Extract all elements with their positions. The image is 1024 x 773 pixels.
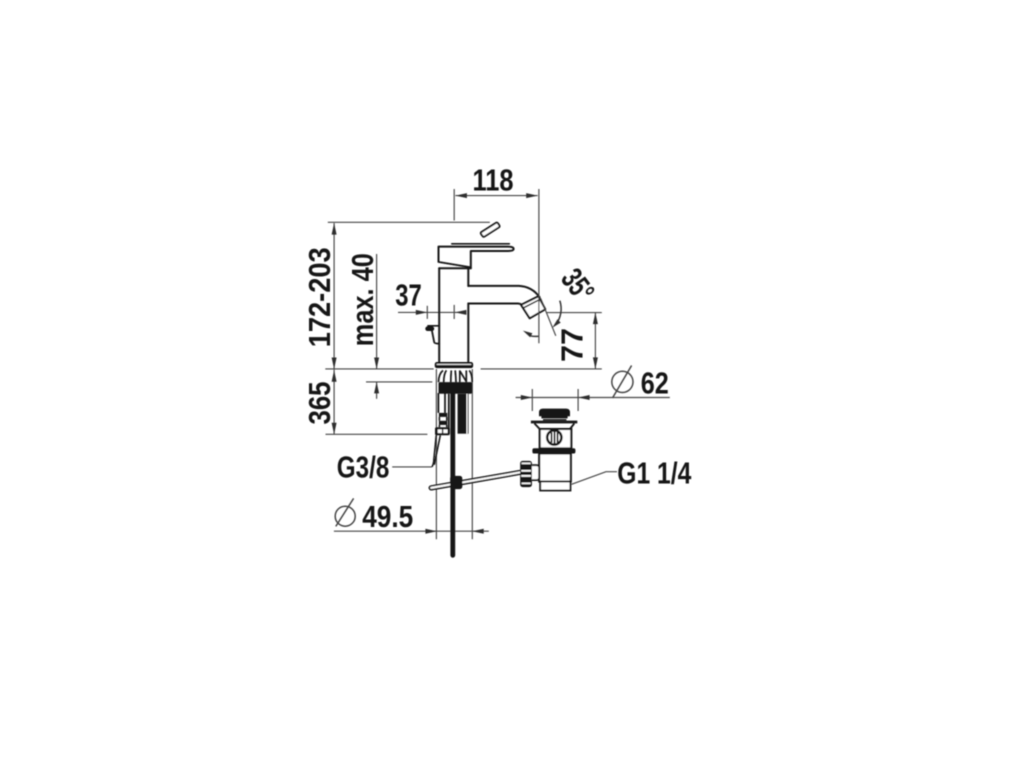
lever handle: [439, 247, 514, 269]
body right edge upper: [467, 268, 469, 286]
dim max40 line lower overshoot: [376, 382, 378, 399]
top reference line (lever max height): [328, 221, 490, 223]
hose nut: [435, 427, 450, 435]
deck line left segment: [325, 368, 433, 370]
arrows dia62 (outside): [521, 395, 533, 400]
threaded shank: [458, 394, 469, 434]
hose tail to G3/8: [432, 435, 436, 467]
dim 37 line: [398, 311, 466, 313]
left hose tube: [437, 393, 439, 413]
dim 172-203 line: [333, 223, 335, 369]
lever tip indicator (raised position): [481, 223, 500, 237]
arrows 172-203: [332, 223, 337, 235]
stream direction line: [541, 298, 556, 336]
spout bottom edge: [468, 304, 523, 307]
dia symbol 62: [612, 371, 633, 392]
tick 37 left: [426, 306, 428, 319]
lower body: [539, 454, 571, 482]
leader G3/8: [392, 466, 432, 468]
tick dia62 right: [577, 389, 579, 411]
arrows 77 (inside): [593, 313, 598, 325]
nut-body connector: [532, 465, 539, 480]
thin ring under cap: [543, 419, 566, 421]
upper body: [540, 429, 572, 448]
plug cap: [540, 410, 569, 416]
svg-text:max. 40: max. 40: [345, 253, 380, 346]
svg-text:77: 77: [555, 328, 590, 362]
dia symbol 49.5: [335, 506, 355, 526]
tailpipe: [540, 482, 570, 491]
arrows 37 (outside): [416, 310, 428, 315]
body left edge: [438, 268, 440, 363]
arrows max40 (outside, pointing in): [374, 358, 379, 370]
ext line right of 118 (over aerator): [538, 189, 540, 343]
pop-up vertical rod: [450, 394, 455, 556]
sealing washer band: [532, 448, 575, 453]
max depth line (deck underside): [366, 381, 432, 383]
tick 37 right (centerline): [453, 305, 455, 319]
ext line bottom of 365: [326, 433, 428, 435]
hose top curves: [439, 370, 473, 382]
side nut: [520, 461, 532, 487]
base plate: [436, 363, 473, 367]
svg-text:37: 37: [395, 278, 422, 313]
ext line left (faucet centerline top): [453, 189, 455, 221]
svg-text:62: 62: [641, 365, 669, 400]
swivel arc left: [530, 335, 538, 338]
hose connector band 1: [439, 413, 447, 417]
flange disk: [531, 421, 577, 424]
ext line dia49.5 right: [471, 369, 473, 539]
body right edge lower: [467, 304, 469, 363]
svg-text:118: 118: [473, 162, 514, 197]
dimension arrowheads: [332, 193, 598, 534]
dim 365 line: [333, 370, 335, 435]
arrows dia49.5 (outside): [425, 529, 437, 534]
svg-text:172-203: 172-203: [302, 247, 337, 347]
swivel arc right: [556, 301, 561, 325]
lever top chamfer line: [452, 243, 510, 245]
ext line dia49.5 left: [435, 369, 437, 539]
spout top edge: [468, 286, 539, 297]
dim dia62 line: [516, 397, 670, 399]
svg-text:G3/8: G3/8: [337, 450, 390, 485]
pull rod knob on body: [428, 325, 439, 327]
dim dia49.5 line: [334, 530, 489, 532]
mounting nut band: [439, 382, 473, 394]
overflow hole: [547, 430, 561, 444]
hose connector band 2: [439, 421, 447, 425]
leader G1 1/4: [572, 472, 618, 485]
dim 77 line: [594, 313, 596, 369]
flange cone: [534, 423, 574, 429]
arrows 365: [332, 370, 337, 382]
body top line: [439, 267, 471, 269]
horizontal pop-up rod: [429, 471, 520, 490]
spout outlet level line: [547, 312, 602, 314]
rod joint block: [450, 476, 462, 489]
tick dia62 left: [531, 389, 533, 411]
dim max40 line upper: [376, 254, 378, 369]
lever underside diagonal: [440, 262, 470, 267]
deck line right segment: [481, 368, 602, 370]
svg-text:365: 365: [302, 382, 337, 425]
arrows 118 (inside, pointing out): [455, 193, 467, 198]
aerator: [521, 296, 545, 318]
svg-text:G1 1/4: G1 1/4: [617, 455, 692, 490]
dim 118 line: [455, 195, 537, 197]
svg-text:49.5: 49.5: [362, 499, 413, 534]
connector mid section: [438, 417, 440, 421]
